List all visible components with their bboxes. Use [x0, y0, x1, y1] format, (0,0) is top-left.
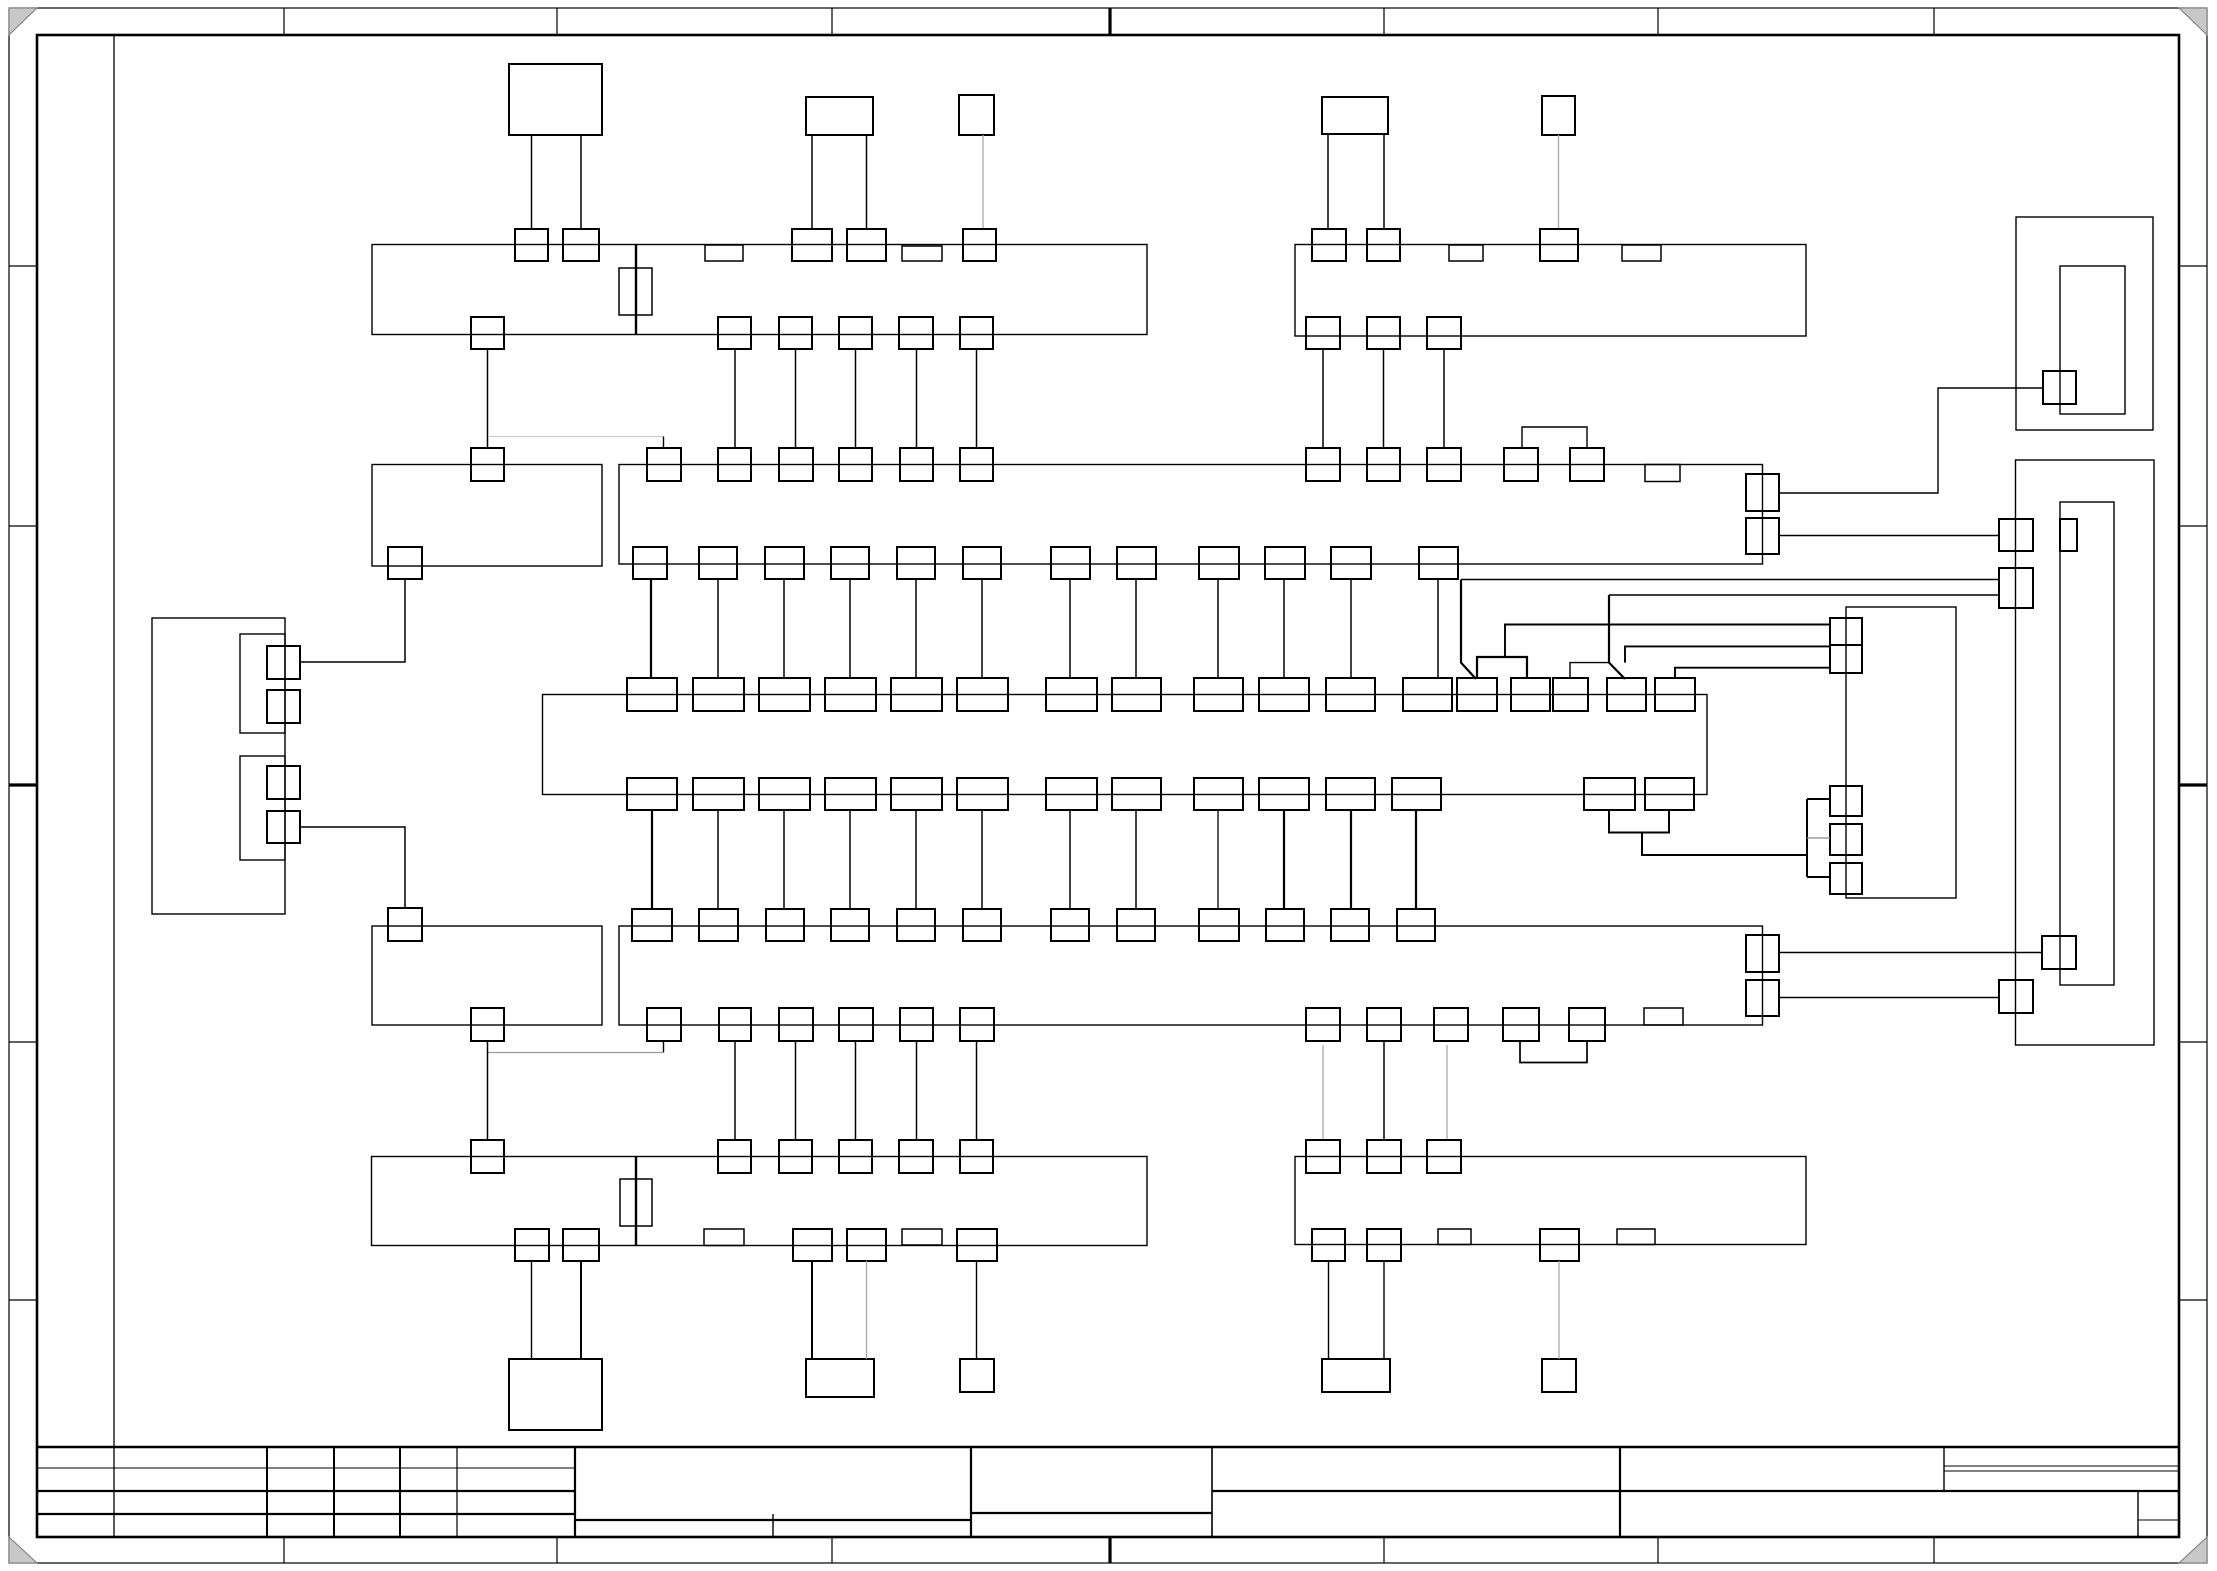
connector J5 bottom pin 10 — [1259, 778, 1309, 810]
connector J13 inner pin — [2060, 519, 2077, 551]
connector J1 bottom pin 3 — [779, 317, 812, 349]
wire J4.r2-J13 pinA — [1779, 535, 1999, 537]
connector J4 bottom pin 1 — [633, 547, 667, 579]
connector J5 bottom pin 4 — [825, 778, 876, 810]
connector J8 bottom pin 3 — [793, 1229, 832, 1261]
connector J4 top pin 10 — [1504, 448, 1538, 481]
net funnel 1 into J5 pin13 — [1461, 580, 1476, 680]
title block column x=457 — [456, 1447, 458, 1537]
connector J7 top pin 9 — [1199, 909, 1239, 941]
connector J7 top pin 10 — [1266, 909, 1304, 941]
wire J5-J7 x=1070 — [1069, 810, 1071, 909]
connector J7 bottom pin 11 — [1569, 1008, 1605, 1041]
connector J13 pin B — [1999, 568, 2033, 608]
connector J5 top pin 13 — [1457, 678, 1497, 711]
connector J5 top pin 5 — [891, 678, 942, 711]
connector J8 top pin 6 — [960, 1140, 993, 1173]
connector J9 bottom pin 2 — [1367, 1229, 1401, 1261]
component box B9 — [1322, 1359, 1390, 1392]
wire J1-J4 x=976.5 — [976, 349, 978, 448]
connector J4 bottom pin 10 — [1265, 547, 1305, 579]
wire J4-J5 x=982 — [981, 579, 983, 678]
wire J1-J4 x=916.5 — [916, 349, 918, 448]
connector J6 body — [372, 926, 602, 1025]
corner trim triangle bottom-right — [2179, 1537, 2207, 1563]
component box B3 — [959, 95, 994, 135]
connector J7 bottom pin 8 — [1367, 1008, 1401, 1041]
zone tick left y=266 — [9, 265, 37, 267]
connector J4 bottom pin 12 — [1419, 547, 1458, 579]
connector J11 left pin 1a — [1830, 618, 1862, 645]
connector J7 top pin 3 — [766, 909, 804, 941]
connector J4 bottom pin 9 — [1199, 547, 1239, 579]
zone divider top x=284 — [283, 8, 285, 35]
connector J1 top pin 2 — [563, 229, 599, 261]
wire J6.b-J8 junction — [487, 1041, 489, 1140]
connector J1 top pin 5 — [963, 229, 996, 261]
connector J8 top pin 3 — [779, 1140, 812, 1173]
fuse F2 lead in J8 — [635, 1157, 637, 1246]
net stub gray J7-J8 — [488, 1052, 664, 1054]
connector J8 bottom pin 4 — [847, 1229, 886, 1261]
corner trim triangle top-left — [9, 8, 37, 35]
jumper J5 pins 15-16 — [1570, 663, 1609, 679]
connector J4 body — [619, 465, 1763, 565]
wire J10.1-J3 bottom pin — [300, 579, 405, 662]
zone divider bottom x=557 — [556, 1537, 558, 1563]
left margin column line — [113, 35, 115, 1537]
zone divider bottom x=1934 — [1933, 1537, 1935, 1563]
connector J1 body — [372, 245, 1147, 335]
wire J10.4-J6 top pin — [300, 827, 405, 908]
wire J7-J8 x=855.5 — [855, 1041, 857, 1140]
zone tick right y=266 — [2179, 265, 2207, 267]
wire J7.r1-J13 pinC — [1779, 952, 2042, 954]
connector J6 bottom pin — [471, 1008, 504, 1041]
connector J11 left pin 1b — [1830, 645, 1862, 673]
connector J2 body — [1295, 245, 1806, 337]
wire J4-J5 x=1284 — [1283, 579, 1285, 678]
zone divider top x=1934 — [1933, 8, 1935, 35]
connector J9 top pin 3 — [1427, 1140, 1461, 1173]
zone divider bottom x=284 — [283, 1537, 285, 1563]
wire J5-J7 x=784 — [783, 810, 785, 909]
title block column x=1620 — [1619, 1447, 1621, 1537]
wire J5.13-J11 top a — [1505, 625, 1830, 658]
connector J5 top pin 1 — [627, 678, 677, 711]
connector J5 bottom pin 2 — [693, 778, 744, 810]
connector J10 pin 3 — [267, 766, 300, 799]
connector J7 bottom pin 7 — [1306, 1008, 1340, 1041]
connector J1 top pin 3 — [792, 229, 832, 261]
zone tick left y=1042 — [9, 1041, 37, 1043]
connector J11 left pin 2 — [1830, 786, 1862, 816]
connector J7 top pin 1 — [632, 909, 672, 941]
zone divider top x=1384 — [1383, 8, 1385, 35]
wire J5-J7 x=718 — [717, 810, 719, 909]
connector J10 pin 4 — [267, 811, 300, 843]
connector J5 bottom pin 11 — [1326, 778, 1375, 810]
bus stub J11 pin2 — [1807, 798, 1830, 800]
connector J2 top pin 2 — [1367, 229, 1400, 261]
wire J4-J5 x=718 — [717, 579, 719, 678]
connector J7 bottom pin 10 — [1503, 1008, 1539, 1041]
connector J4 bottom pin 7 — [1051, 547, 1090, 579]
connector J1 top tab 1 — [705, 245, 743, 261]
wire J4-J5 x=1351 — [1350, 579, 1352, 678]
wire J7-J8 x=735 — [734, 1041, 736, 1140]
wire J8-B7 b (gray) — [866, 1261, 868, 1359]
wire J1.b1-J3 junction — [487, 349, 489, 448]
connector J5 top pin 6 — [957, 678, 1008, 711]
wire B4-J2 pin b — [1383, 134, 1385, 229]
connector J4 top pin 9 — [1427, 448, 1461, 481]
connector J7 top pin 4 — [831, 909, 869, 941]
connector J1 top pin 1 — [515, 229, 548, 261]
connector J5 top pin 11 — [1326, 678, 1375, 711]
connector J4 top pin 11 — [1570, 448, 1604, 481]
component box B5 — [1542, 96, 1575, 135]
connector J5 bottom pin 1 — [627, 778, 677, 810]
connector J1 bottom pin 2 — [718, 317, 751, 349]
connector J10 pin 1 — [267, 646, 300, 679]
connector J7 top pin 11 — [1331, 909, 1369, 941]
connector J8 top pin 2 — [718, 1140, 751, 1173]
title block row line C left — [37, 1513, 575, 1515]
connector J7 body — [619, 926, 1763, 1025]
connector J5 bottom pin 6 — [957, 778, 1008, 810]
connector J5 body — [543, 695, 1708, 795]
wire J4.r1-J12 pin — [1779, 388, 2043, 493]
zone tick right y=1300 — [2179, 1299, 2207, 1301]
title block row line A — [37, 1467, 575, 1469]
fuse F1 body — [619, 268, 652, 315]
connector J11 left pin 3 — [1830, 824, 1862, 855]
connector J5 top pin 12 — [1403, 678, 1452, 711]
zone center divider top — [1108, 8, 1111, 35]
connector J10 module 1 — [240, 634, 285, 733]
connector J4 top tab — [1645, 465, 1680, 482]
connector J5 top pin 16 — [1607, 678, 1646, 711]
connector J7 bottom pin 1 — [647, 1008, 681, 1041]
connector J5 bottom pin 14 — [1645, 778, 1694, 810]
wire B1-J1 pin a — [531, 135, 533, 229]
connector J5 top pin 15 — [1553, 678, 1588, 711]
wire J8-B6 a — [531, 1261, 533, 1359]
connector J4 top pin 6 — [960, 448, 993, 481]
wire J5.17-J11 top c — [1675, 668, 1830, 678]
connector J2 bottom pin 1 — [1306, 317, 1340, 349]
wire J7-J9 x=1323 (gray) — [1322, 1045, 1324, 1140]
zone divider bottom x=1658 — [1657, 1537, 1659, 1563]
connector J4 right pin 2 — [1746, 518, 1779, 554]
connector J4 bottom pin 3 — [765, 547, 804, 579]
net funnel 2 into J5 pin16 — [1609, 595, 1625, 679]
connector J4 top pin 2 — [718, 448, 751, 481]
connector J5 bottom pin 8 — [1112, 778, 1161, 810]
title block sub row y=1471 — [1944, 1470, 2179, 1472]
connector J2 top tab 1 — [1449, 245, 1483, 261]
wire B2-J1 pin c — [811, 135, 813, 229]
net stub drop from J7 pin1 — [663, 1041, 665, 1053]
zone divider top x=557 — [556, 8, 558, 35]
connector J11 left pin 4 — [1830, 863, 1862, 894]
connector J5 bottom pin 5 — [891, 778, 942, 810]
connector J8 top pin 5 — [899, 1140, 933, 1173]
connector J2 top pin 1 — [1312, 229, 1346, 261]
connector J4 top pin 3 — [779, 448, 813, 481]
connector J13 pin C — [2042, 936, 2076, 969]
connector J2 bottom pin 3 — [1427, 317, 1461, 349]
connector J8 top pin 4 — [839, 1140, 872, 1173]
connector J8 bottom tab 2 — [902, 1229, 942, 1245]
zone center divider bottom — [1108, 1537, 1111, 1563]
title block column x=575 — [574, 1447, 576, 1537]
wire J7.r2-J13 pinD — [1779, 997, 1999, 999]
jumper J5 bottom pins 13-14 — [1609, 810, 1669, 833]
wire J5.16-J11 top b — [1625, 646, 1830, 662]
connector J9 bottom pin 1 — [1312, 1229, 1345, 1261]
connector J4 top pin 5 — [900, 448, 933, 481]
connector J7 top pin 12 — [1397, 909, 1435, 941]
connector J5 bottom pin 12 — [1392, 778, 1441, 810]
connector J5 top pin 2 — [693, 678, 744, 711]
connector J7 top pin 7 — [1051, 909, 1089, 941]
title block top rule — [37, 1446, 2179, 1448]
connector J2 top pin 3 — [1540, 229, 1578, 261]
wire J5-J7 x=1218 — [1217, 810, 1219, 909]
connector J2 top tab 2 — [1622, 245, 1661, 261]
connector J7 bottom pin 9 — [1434, 1008, 1468, 1041]
wire J7-J9 x=1384 — [1383, 1041, 1385, 1140]
wire J9-B9 a — [1328, 1261, 1330, 1359]
connector J1 bottom pin 5 — [899, 317, 933, 349]
connector J4 bottom pin 11 — [1331, 547, 1371, 579]
wire J7-J8 x=916.5 — [916, 1041, 918, 1140]
connector J6 top pin — [388, 908, 422, 941]
wire J5-J7 x=1416 — [1415, 810, 1417, 909]
wire J5-J7 x=1284 — [1283, 810, 1285, 909]
connector J8 bottom pin 5 — [957, 1229, 997, 1261]
wire B3-J1 pin e (gray) — [982, 135, 984, 228]
component box B7 — [806, 1359, 874, 1397]
wire B1-J1 pin b — [580, 135, 582, 229]
wire J7-J8 x=976.5 — [976, 1041, 978, 1140]
component box B1 — [509, 64, 602, 135]
connector J4 bottom pin 5 — [897, 547, 935, 579]
connector J8 bottom tab 1 — [704, 1229, 744, 1246]
wire J1-J4 x=795.5 — [795, 349, 797, 448]
connector J5 top pin 10 — [1259, 678, 1309, 711]
zone divider top x=1658 — [1657, 8, 1659, 35]
title block column x=334 — [333, 1447, 335, 1537]
wire J5-J7 x=1351 — [1350, 810, 1352, 909]
title block sub column x=2138 — [2137, 1491, 2139, 1537]
wire J2-J4 x=1444 — [1443, 349, 1445, 448]
connector J9 bottom pin 3 — [1540, 1229, 1579, 1261]
wire J4-J5 x=1136 — [1135, 579, 1137, 678]
wire J5 bottom staple - J11 bus — [1642, 833, 1807, 856]
connector J5 bottom pin 13 — [1584, 778, 1635, 810]
title block row line B right — [1212, 1490, 2179, 1492]
zone divider top x=832 — [831, 8, 833, 35]
connector J2 bottom pin 2 — [1367, 317, 1400, 349]
wire J2-J4 x=1323 — [1322, 349, 1324, 448]
connector J7 right pin 2 — [1746, 980, 1779, 1016]
wire J9-B10 (gray) — [1558, 1261, 1560, 1359]
wire J7-J8 x=795.5 — [795, 1041, 797, 1140]
connector J5 top pin 3 — [759, 678, 810, 711]
connector J1 top tab 2 — [902, 246, 942, 261]
corner trim triangle bottom-left — [9, 1537, 37, 1563]
title block sub column x=1944 — [1943, 1447, 1945, 1491]
zone tick right y=526 — [2179, 525, 2207, 527]
connector J7 top pin 8 — [1117, 909, 1155, 941]
connector J5 bottom pin 7 — [1046, 778, 1097, 810]
connector J5 top pin 8 — [1112, 678, 1161, 711]
connector J5 top pin 4 — [825, 678, 876, 711]
connector J9 bottom tab 2 — [1617, 1229, 1655, 1245]
wire J4-J5 x=784 — [783, 579, 785, 678]
connector J7 bottom pin 5 — [900, 1008, 933, 1041]
connector J3 top pin — [471, 448, 504, 481]
jumper wire J4 pins 10-11 — [1522, 427, 1587, 448]
wire J4-J5 x=1438 — [1437, 579, 1439, 678]
wire J4-J5 x=916 — [915, 579, 917, 678]
connector J8 top pin 1 — [471, 1140, 504, 1173]
jumper J7 bottom pins 10-11 — [1520, 1041, 1587, 1063]
title block sub row y=1466 — [1944, 1465, 2179, 1467]
connector J12 inner module — [2060, 266, 2125, 414]
wire net1 J5-J13 pinB — [1461, 579, 1999, 581]
connector J5 top pin 14 — [1511, 678, 1550, 711]
connector J4 bottom pin 2 — [699, 547, 737, 579]
title block row line B left — [37, 1490, 575, 1492]
zone divider bottom x=1384 — [1383, 1537, 1385, 1563]
zone divider bottom x=832 — [831, 1537, 833, 1563]
title block column x=267 — [266, 1447, 268, 1537]
connector J7 right pin 1 — [1746, 935, 1779, 972]
wire B4-J2 pin a — [1327, 134, 1329, 229]
wire J5-J7 x=652 — [651, 810, 653, 909]
component box B10 — [1542, 1359, 1576, 1392]
wire J8-B8 — [976, 1261, 978, 1359]
connector J7 bottom pin 3 — [779, 1008, 813, 1041]
connector J1 bottom pin 4 — [839, 317, 872, 349]
connector J13 pin D — [1999, 980, 2033, 1013]
connector J7 top pin 2 — [699, 909, 738, 941]
wire J4-J5 x=850 — [849, 579, 851, 678]
connector J5 top pin 17 — [1655, 678, 1695, 711]
net stub drop to J4 pin1 — [663, 437, 665, 449]
zone tick left y=1300 — [9, 1299, 37, 1301]
wire B2-J1 pin d — [866, 135, 868, 229]
title block column x=1212 — [1211, 1447, 1213, 1537]
title block row line C right — [971, 1512, 1212, 1514]
connector J7 bottom pin 4 — [839, 1008, 873, 1041]
zone center tick right — [2179, 783, 2207, 786]
connector J4 top pin 7 — [1306, 448, 1340, 481]
wire B5-J2 pin c (gray) — [1558, 135, 1560, 228]
connector J3 body — [372, 465, 602, 567]
wire J1-J4 x=855.5 — [855, 349, 857, 448]
connector J9 top pin 1 — [1306, 1140, 1340, 1173]
title block column x=971 — [970, 1447, 972, 1537]
connector J3 bottom pin — [388, 547, 422, 579]
connector J9 top pin 2 — [1367, 1140, 1401, 1173]
zone tick right y=1042 — [2179, 1041, 2207, 1043]
wire J5-J7 x=982 — [981, 810, 983, 909]
connector J4 top pin 4 — [839, 448, 872, 481]
component box B4 — [1322, 97, 1388, 134]
connector J7 bottom tab — [1644, 1008, 1683, 1025]
component box B6 — [509, 1359, 602, 1430]
connector J13 inner module — [2060, 502, 2114, 985]
connector J7 top pin 5 — [897, 909, 935, 941]
wire net2 J5-J13 pinB — [1609, 594, 1999, 596]
connector J10 pin 2 — [267, 690, 300, 723]
connector J10 module 2 — [240, 756, 285, 860]
title block column x=400 — [399, 1447, 401, 1537]
title block sub column x=773 — [772, 1514, 774, 1537]
connector J12 pin — [2043, 371, 2076, 404]
connector J8 body — [372, 1157, 1148, 1246]
bus stub J11 pin3 — [1807, 837, 1830, 839]
corner trim triangle top-right — [2179, 8, 2207, 35]
connector J4 right pin 1 — [1746, 474, 1779, 511]
wire J5-J7 x=850 — [849, 810, 851, 909]
wire J8-B7 a — [811, 1261, 813, 1359]
connector J8 bottom pin 1 — [515, 1229, 549, 1261]
wire J9-B9 b — [1383, 1261, 1385, 1359]
connector J5 bottom pin 3 — [759, 778, 810, 810]
connector J13 pin A — [1999, 519, 2033, 551]
bus wire J11 left — [1806, 799, 1808, 877]
connector J5 top pin 7 — [1046, 678, 1097, 711]
bus stub J11 pin4 — [1807, 876, 1830, 878]
connector J7 top pin 6 — [963, 909, 1001, 941]
wire J2-J4 x=1383.5 — [1383, 349, 1385, 448]
connector J10 body — [152, 618, 285, 914]
connector J4 top pin 1 — [647, 448, 681, 481]
connector J1 top pin 4 — [847, 229, 886, 261]
connector J4 top pin 8 — [1367, 448, 1400, 481]
connector J12 body — [2016, 217, 2153, 430]
connector J8 bottom pin 2 — [563, 1229, 599, 1261]
component box B2 — [806, 97, 873, 135]
fuse F1 lead in J1 — [635, 245, 637, 335]
wire J5-J7 x=916 — [915, 810, 917, 909]
wire J4-J5 x=651 — [650, 579, 652, 678]
wire J8-B6 b — [580, 1261, 582, 1359]
connector J7 bottom pin 6 — [960, 1008, 994, 1041]
title block row line C mid — [575, 1519, 971, 1521]
wire J4-J5 x=1070 — [1069, 579, 1071, 678]
connector J7 bottom pin 2 — [719, 1008, 751, 1041]
wire J7-J9 x=1447 (gray) — [1446, 1045, 1448, 1140]
wire J1-J4 x=735 — [734, 349, 736, 448]
connector J9 body — [1295, 1157, 1806, 1245]
component box B8 — [960, 1359, 994, 1392]
connector J4 bottom pin 8 — [1117, 547, 1156, 579]
connector J13 body — [2016, 460, 2155, 1045]
connector J5 top pin 9 — [1194, 678, 1243, 711]
jumper J5 pins 13-14 — [1477, 657, 1527, 679]
connector J9 bottom tab 1 — [1438, 1229, 1471, 1245]
title block sub row y=1520 — [2138, 1519, 2179, 1521]
connector J11 body — [1846, 607, 1956, 898]
wire J4-J5 x=1218 — [1217, 579, 1219, 678]
